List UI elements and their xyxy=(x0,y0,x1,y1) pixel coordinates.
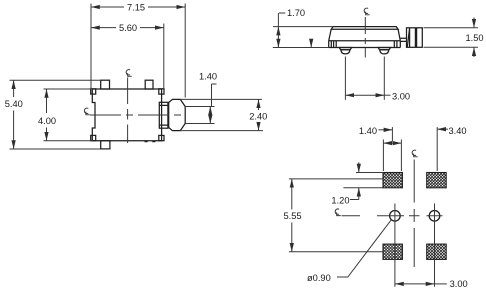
svg-text:5.60: 5.60 xyxy=(119,23,137,33)
land pattern: hole left cross lines xyxy=(377,204,404,287)
side view: top plate xyxy=(331,27,398,30)
dimension 1.40 (pad width) xyxy=(379,129,393,131)
seating plane arrow xyxy=(310,39,312,48)
land pattern: centerline symbol (top) xyxy=(412,150,418,157)
side view: contact bump left xyxy=(339,48,351,50)
land pattern: horizontal centerline segments xyxy=(342,215,420,217)
dimension 3.00 (hole spacing) xyxy=(395,283,435,285)
land pattern: centerline symbol (left) xyxy=(335,209,341,216)
svg-text:7.15: 7.15 xyxy=(127,2,145,12)
land pattern: vertical centerline xyxy=(413,160,415,268)
side view: base block xyxy=(329,41,401,48)
land pattern: pad bottom-right xyxy=(427,244,447,259)
svg-text:4.00: 4.00 xyxy=(38,116,56,126)
top view: corner lead top-left xyxy=(91,89,96,94)
side view: body sloped sides xyxy=(329,29,401,41)
dimension 1.40 (actuator tip height) xyxy=(185,106,214,108)
land pattern: hole right xyxy=(429,211,440,222)
svg-text:2.40: 2.40 xyxy=(249,111,267,121)
dimension 1.20 (pad height) xyxy=(356,172,383,174)
top view: corner lead bottom-right xyxy=(159,135,164,140)
dimension 3.00 (contact spacing, side) xyxy=(344,57,346,100)
top view: actuator cap octagon xyxy=(169,99,186,130)
land pattern: pad top-right xyxy=(427,173,447,188)
dimension 4.00 (body height) xyxy=(44,88,93,90)
top view: actuator neck xyxy=(159,102,168,128)
dimension 7.15 (overall width, top) xyxy=(90,4,92,89)
side view: contact bump right xyxy=(378,48,390,50)
dimension 5.40 (overall height, left) xyxy=(10,79,101,81)
dimension ø0.90 (hole diameter leader) xyxy=(337,220,391,277)
side view: base feet lines xyxy=(331,41,397,48)
side view: vertical centerline xyxy=(364,17,366,58)
land pattern: pad bottom-left xyxy=(383,244,402,259)
svg-text:1.40: 1.40 xyxy=(359,126,377,136)
side view: actuator neck lines xyxy=(400,38,406,41)
land pattern: pad top-left xyxy=(383,173,402,188)
land pattern: hole left xyxy=(390,211,401,222)
top view: centerline symbol (top) xyxy=(126,70,132,77)
top view: hidden tab dashes on bottom edge xyxy=(145,141,156,143)
dimension 5.55 (pad row spacing) xyxy=(289,178,383,180)
dimension 2.40 (actuator cap height) xyxy=(180,98,262,100)
svg-text:1.50: 1.50 xyxy=(465,33,483,43)
svg-text:ø0.90: ø0.90 xyxy=(307,273,331,283)
top view: top tab right xyxy=(145,80,153,89)
top view: switch body outline with left notch xyxy=(92,89,161,141)
svg-text:3.00: 3.00 xyxy=(450,279,468,289)
svg-text:5.40: 5.40 xyxy=(5,99,23,109)
dimension 1.50 (actuator height, side) xyxy=(424,27,479,29)
svg-text:1.20: 1.20 xyxy=(331,195,349,205)
svg-text:3.00: 3.00 xyxy=(392,91,410,101)
top view: bottom tab xyxy=(101,141,110,149)
svg-text:5.55: 5.55 xyxy=(283,211,301,221)
svg-text:1.40: 1.40 xyxy=(199,71,217,81)
side view: actuator cap xyxy=(407,28,423,48)
side view: centerline symbol xyxy=(364,8,370,15)
svg-text:3.40: 3.40 xyxy=(449,126,467,136)
dimension 1.70 (body height, side) xyxy=(273,26,333,28)
top view: corner lead top-right xyxy=(159,89,164,94)
svg-text:1.70: 1.70 xyxy=(287,8,305,18)
top view: actuator neck flange lines xyxy=(159,105,168,125)
land pattern: hole right cross lines xyxy=(427,204,443,287)
top view: corner lead bottom-left xyxy=(91,135,96,140)
top view: horizontal centerline xyxy=(90,114,183,116)
top view: vertical centerline xyxy=(127,78,129,144)
dimension 5.60 (body width) xyxy=(163,24,165,89)
top view: top tab left xyxy=(101,80,110,89)
top view: centerline symbol (left) xyxy=(84,108,90,115)
dimension 3.40 (pad column spacing) xyxy=(436,127,438,171)
